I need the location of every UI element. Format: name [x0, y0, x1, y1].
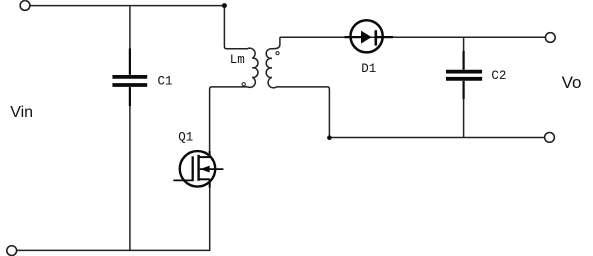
svg-text:C2: C2	[491, 69, 506, 83]
svg-text:Vo: Vo	[562, 73, 582, 92]
svg-text:Lm: Lm	[230, 53, 245, 67]
svg-text:Q1: Q1	[178, 130, 193, 144]
svg-text:D1: D1	[361, 62, 376, 76]
svg-text:C1: C1	[158, 75, 173, 89]
svg-text:Vin: Vin	[10, 104, 33, 121]
